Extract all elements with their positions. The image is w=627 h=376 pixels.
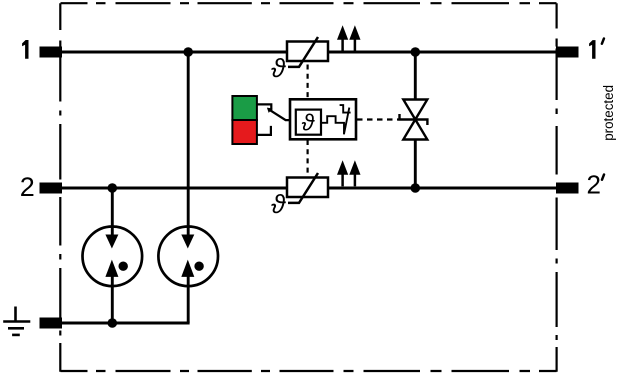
svg-text:ϑ: ϑ <box>271 53 286 83</box>
changeover contact lever <box>270 110 290 120</box>
indicator green <box>232 96 257 120</box>
monitoring device U1 <box>290 99 356 139</box>
monitor switch blade <box>344 108 349 134</box>
wire GDT F1 to ground bus <box>111 277 114 324</box>
border protected zone top (dash-dot) <box>61 2 557 4</box>
TVS suppressor diode (bidirectional) <box>403 100 427 140</box>
monitor pulse waveform <box>321 116 344 134</box>
monitor inner theta box <box>296 110 321 135</box>
wire line2 to GDT F1 <box>111 188 114 236</box>
label 1' <box>589 40 595 59</box>
wire line 1 <box>61 51 557 54</box>
label 1 <box>22 40 28 59</box>
gas discharge tube F2 <box>158 226 218 286</box>
border protected zone bottom (dash-dot) <box>61 370 557 372</box>
varistor RV1 (line 1, thermally monitored) <box>287 37 328 67</box>
contact top (green) <box>257 104 271 111</box>
junction line2 / GDT F1 branch <box>108 183 118 193</box>
varistor RV2 (line 2, thermally monitored) <box>287 173 328 203</box>
ground terminal <box>40 318 63 329</box>
terminal 1 <box>40 47 63 58</box>
junction ground bus / GDT F1 <box>108 318 118 328</box>
wire TVS branch <box>414 52 417 188</box>
dashed link monitor to TVS <box>357 118 399 120</box>
wire vertical line1 to GDT F2 <box>187 52 190 236</box>
svg-text:protected: protected <box>601 85 616 141</box>
border protected zone right (dash-dot) <box>555 3 557 372</box>
lever arrowhead <box>267 108 273 113</box>
monitor switch upper contact <box>340 105 351 113</box>
svg-text:ϑ: ϑ <box>271 189 286 219</box>
wire GDT F2 to ground bus <box>187 277 190 324</box>
surge arrows above RV1 <box>337 25 361 51</box>
contact bottom (red) <box>257 126 271 135</box>
border protected zone left (dash-dot) <box>59 3 61 372</box>
svg-text:2: 2 <box>20 172 35 202</box>
terminal 2' <box>556 183 579 194</box>
terminal 1' <box>556 47 579 58</box>
junction line2 / TVS branch <box>411 183 421 193</box>
junction line1 / TVS branch <box>411 47 421 57</box>
terminal 2 <box>40 183 63 194</box>
svg-text:ϑ: ϑ <box>302 110 316 136</box>
surge arrows above RV2 <box>337 160 361 186</box>
junction line1 / GDT F2 branch <box>183 47 193 57</box>
dashed link RV2 to monitor <box>307 140 309 176</box>
indicator red <box>232 120 257 144</box>
TVS center bar <box>400 114 428 125</box>
wire ground bus <box>61 322 190 325</box>
wire line 2 <box>61 187 557 190</box>
dashed link RV1 to monitor <box>307 65 309 100</box>
svg-text:2: 2 <box>587 169 601 199</box>
ground symbol <box>3 307 30 335</box>
gas discharge tube F1 <box>83 226 143 286</box>
